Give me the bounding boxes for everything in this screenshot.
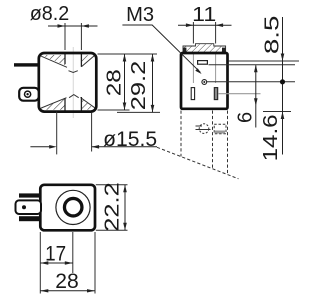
right side extension line A (slot top) <box>229 60 300 62</box>
top hatch right triangle <box>81 55 94 67</box>
bottom chamfer right diagonal <box>81 98 95 108</box>
right side extension line D <box>263 111 291 113</box>
svg-text:ø15.5: ø15.5 <box>103 127 157 151</box>
tab dot <box>22 205 26 209</box>
dashed cone diagonal <box>157 147 239 179</box>
extension line top (y=54) <box>98 53 158 55</box>
dashed projection line right <box>227 111 229 175</box>
dashed projection line middle <box>212 111 214 169</box>
connector top bar <box>19 193 41 197</box>
o15.5 left tail and arrow <box>30 146 50 148</box>
centerline horizontal <box>18 207 92 209</box>
o8.2 extension line left <box>64 23 66 50</box>
svg-text:ø8.2: ø8.2 <box>30 3 70 25</box>
hole wall bottom-left <box>64 98 66 111</box>
svg-text:22.2: 22.2 <box>101 182 123 232</box>
cable gland circle (hidden) <box>199 124 209 134</box>
hat end block right <box>222 48 226 53</box>
rivet ring <box>25 91 31 97</box>
armature hole ring <box>64 198 82 216</box>
28 extension left (shared) <box>39 232 41 294</box>
knurled hat <box>183 44 226 53</box>
chain dimension dot <box>280 79 285 84</box>
flange circle <box>56 190 90 224</box>
22.2 extension top <box>96 184 128 186</box>
bottom chamfer left diagonal <box>41 98 66 108</box>
svg-text:11: 11 <box>192 4 216 26</box>
centerline of armature hole <box>72 47 74 118</box>
svg-text:28: 28 <box>103 69 125 96</box>
svg-text:8.5: 8.5 <box>262 16 284 55</box>
dim line 6 <box>255 65 257 127</box>
o8.2 right arrow <box>81 24 89 28</box>
dim line 29.2 <box>152 54 154 112</box>
22.2 extension bottom <box>96 229 128 231</box>
coil front body <box>40 185 95 231</box>
svg-text:28: 28 <box>55 269 79 293</box>
right side extension line B (slot bottom) <box>209 64 296 66</box>
connector tab <box>16 200 42 214</box>
11 extension line left through body <box>192 22 194 44</box>
rivet dot <box>26 93 28 95</box>
hat end block left <box>183 48 187 53</box>
o15.5 extension line right <box>91 113 93 152</box>
top chamfer right diagonal <box>81 55 94 67</box>
gray line from right slot <box>218 93 261 95</box>
o8.2 left arrow <box>58 24 66 28</box>
svg-text:6: 6 <box>235 112 257 123</box>
connector tab with rivet <box>19 88 39 101</box>
bottom apex chevron <box>69 95 79 98</box>
svg-text:M3: M3 <box>126 4 154 26</box>
dim line 28, inside arrows pointing outward <box>40 290 95 292</box>
14.6 arrow up <box>281 112 285 120</box>
connector pin left <box>14 63 39 66</box>
terminal slot left <box>191 88 194 100</box>
svg-text:29.2: 29.2 <box>128 61 150 111</box>
hole wall top-right <box>80 54 82 67</box>
extension line 28 bottom (y=110) <box>98 109 130 111</box>
28 extension right <box>94 232 96 294</box>
hole wall top-left <box>64 54 66 64</box>
top slot <box>198 61 208 65</box>
dim line 8.5 <box>282 17 284 155</box>
svg-text:14.6: 14.6 <box>260 114 282 161</box>
M3 screw <box>202 80 207 85</box>
11 extension line right through body <box>215 22 217 44</box>
o8.2 dim line <box>48 25 98 27</box>
top apex chevron <box>69 71 78 73</box>
o15.5 right arrow <box>92 145 100 149</box>
hole wall bottom-right <box>80 97 82 111</box>
top chamfer left diagonal <box>41 56 67 67</box>
terminal slot right (sectioned) <box>214 88 217 100</box>
coil body outline <box>39 53 97 112</box>
dashed projection line left <box>180 111 182 157</box>
housing top view body <box>181 53 228 109</box>
o15.5 extension line left <box>56 112 58 155</box>
M3 leader <box>122 25 200 72</box>
dim line 28 <box>124 54 126 110</box>
connector bottom bar <box>19 216 41 221</box>
17 extension right <box>72 232 74 273</box>
gland nut rect (hidden) <box>214 124 226 134</box>
bottom hatch right <box>81 97 94 110</box>
top hatch left triangle <box>41 55 65 65</box>
right side extension line C (screw axis) <box>207 81 295 83</box>
11 dim line <box>178 24 232 26</box>
extension line 29.2 bottom (y=112.4) <box>117 111 160 113</box>
centerline vertical <box>72 189 74 226</box>
o8.2 extension line right <box>80 23 82 50</box>
dim line 22.2 <box>124 185 126 231</box>
o15.5 shelf <box>92 146 157 148</box>
bottom hatch left <box>41 98 65 110</box>
17 dim line, inside arrows pointing outward <box>40 262 73 264</box>
